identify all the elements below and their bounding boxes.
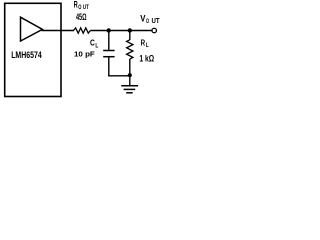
label R_OUT (74, 0, 89, 11)
wire: RL bottom to rail junction (129, 59, 131, 76)
label C_L (90, 39, 98, 50)
svg-text:45Ω: 45Ω (76, 12, 87, 22)
svg-text:C: C (90, 39, 95, 48)
svg-text:10 pF: 10 pF (74, 50, 95, 59)
svg-text:O: O (78, 4, 81, 11)
wire: bottom rail CL to RL (108, 75, 130, 77)
wire: CL bottom stub (108, 57, 110, 76)
svg-text:UT: UT (83, 4, 89, 11)
capacitor C_L (103, 51, 114, 57)
svg-text:LMH6574: LMH6574 (11, 50, 42, 60)
resistor R_L zigzag (127, 40, 133, 59)
resistor R_OUT zigzag (74, 28, 91, 33)
svg-text:O: O (146, 18, 149, 25)
svg-text:L: L (146, 42, 149, 49)
label V_OUT (140, 13, 160, 25)
svg-text:UT: UT (152, 18, 161, 25)
svg-text:L: L (95, 42, 98, 49)
node: junction dot at ground rail (128, 73, 132, 77)
op-amp U1 box (LMH6574 device outline) (5, 3, 61, 96)
wire: ROUT to VOUT terminal (90, 30, 151, 32)
wire: stub to ground (129, 75, 131, 85)
wire: junction down to RL top (129, 31, 131, 41)
op-amp buffer triangle (21, 17, 43, 41)
svg-text:1 kΩ: 1 kΩ (139, 54, 154, 64)
wire: amp output to ROUT (42, 30, 75, 32)
wire: junction down to CL top plate (108, 31, 110, 51)
node: junction dot CL branch (107, 28, 111, 32)
label R_L (141, 38, 149, 50)
ground (121, 86, 138, 93)
node: junction dot RL branch (128, 28, 132, 32)
terminal V_OUT open circle (152, 28, 157, 33)
